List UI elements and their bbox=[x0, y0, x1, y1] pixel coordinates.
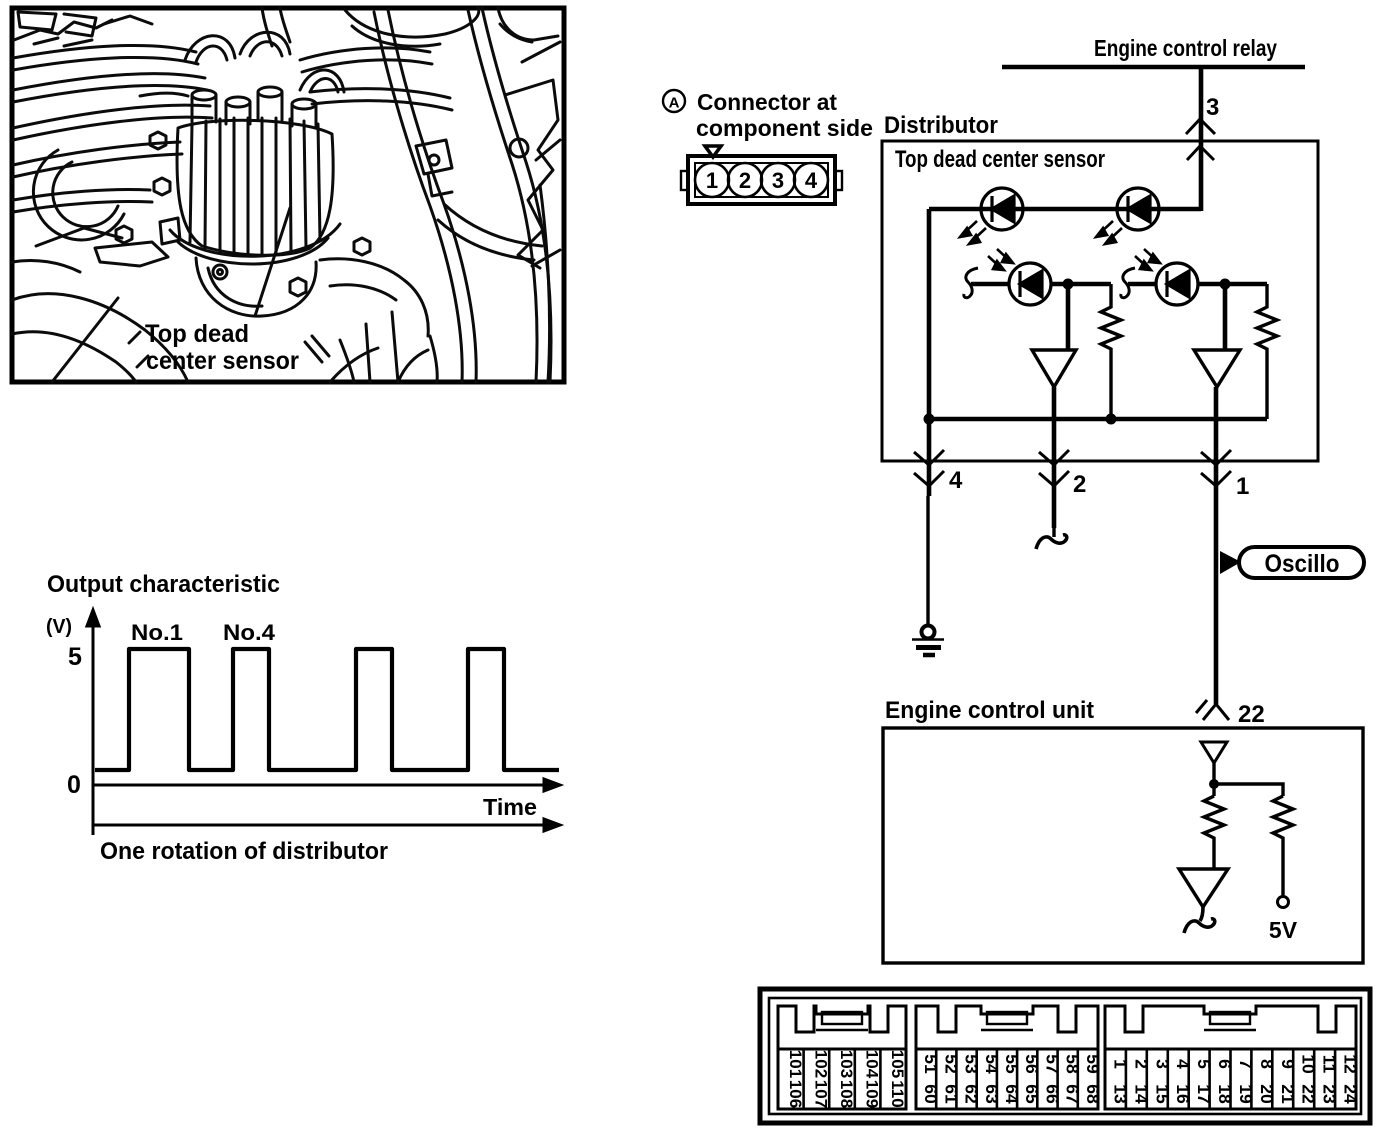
pin 1 label bbox=[1236, 473, 1249, 500]
svg-text:63: 63 bbox=[982, 1084, 1002, 1104]
engine illustration line art bbox=[12, 8, 560, 382]
svg-text:104: 104 bbox=[863, 1050, 882, 1079]
svg-text:52: 52 bbox=[941, 1054, 961, 1074]
svg-text:13: 13 bbox=[1111, 1084, 1131, 1104]
junction dot PD2 bbox=[1220, 279, 1231, 290]
resistor R4 series bbox=[1204, 796, 1224, 869]
svg-text:57: 57 bbox=[1042, 1054, 1062, 1073]
wire left drop to bus bbox=[927, 209, 932, 419]
resistor R2 bbox=[1257, 284, 1277, 419]
svg-text:One rotation of distributor: One rotation of distributor bbox=[100, 838, 388, 865]
photodiode PD2 input curl bbox=[1121, 268, 1135, 298]
svg-text:3: 3 bbox=[1152, 1059, 1172, 1069]
wire curl to PD2 bbox=[1128, 282, 1156, 287]
T4 output curl bbox=[1184, 907, 1215, 933]
label: Top dead center sensor bbox=[895, 146, 1105, 173]
connector A housing bbox=[681, 156, 842, 204]
wire pin 2 tail bbox=[1052, 486, 1055, 537]
svg-text:15: 15 bbox=[1152, 1084, 1172, 1104]
svg-text:5: 5 bbox=[68, 643, 82, 671]
buffer A2 bbox=[1194, 350, 1240, 387]
wire LED row horizontal bbox=[929, 207, 1201, 212]
svg-text:center sensor: center sensor bbox=[146, 347, 299, 375]
pin 22 label bbox=[1238, 701, 1265, 728]
connector symbol pin 1 bbox=[1201, 450, 1231, 486]
graph 0 tick label bbox=[67, 771, 81, 799]
photodiode PD2 bbox=[1156, 263, 1198, 305]
connector symbol pin 4 bbox=[914, 450, 944, 486]
svg-text:106: 106 bbox=[786, 1080, 805, 1108]
label: One rotation of distributor bbox=[100, 838, 388, 865]
svg-text:6: 6 bbox=[1215, 1059, 1235, 1069]
wire junction to buffer A2 bbox=[1223, 284, 1228, 350]
wire PD1 to R1 bbox=[1051, 282, 1111, 287]
svg-text:Output characteristic: Output characteristic bbox=[47, 571, 280, 598]
svg-text:Oscillo: Oscillo bbox=[1265, 550, 1340, 578]
svg-text:101: 101 bbox=[786, 1050, 805, 1078]
pin 3 label bbox=[1206, 94, 1219, 121]
wire curl to PD1 bbox=[971, 282, 1009, 287]
engine photo frame bbox=[12, 8, 564, 382]
LED D2 emission arrows bbox=[1096, 221, 1122, 244]
graph time axis bbox=[93, 779, 560, 791]
graph V axis unit bbox=[46, 616, 72, 638]
svg-text:10: 10 bbox=[1299, 1054, 1319, 1074]
svg-text:4: 4 bbox=[949, 467, 963, 494]
connector block housing x1105 bbox=[1105, 1006, 1356, 1049]
connector A pin circles 1-4 bbox=[695, 163, 828, 197]
connector block cells x778 bbox=[778, 1049, 906, 1109]
svg-text:2: 2 bbox=[1073, 471, 1086, 498]
waveform label No.4 bbox=[223, 620, 276, 645]
svg-text:Distributor: Distributor bbox=[884, 112, 998, 139]
svg-text:Engine control relay: Engine control relay bbox=[1094, 35, 1277, 61]
svg-text:62: 62 bbox=[962, 1084, 982, 1104]
svg-text:component side: component side bbox=[696, 115, 873, 141]
svg-text:54: 54 bbox=[982, 1054, 1002, 1074]
connector symbol pin 2 bbox=[1039, 450, 1069, 486]
svg-text:8: 8 bbox=[1257, 1059, 1277, 1069]
label: Time bbox=[483, 794, 537, 820]
LED D1 bbox=[981, 188, 1023, 230]
connector symbol pin 22 bbox=[1196, 700, 1229, 720]
svg-text:1: 1 bbox=[706, 168, 718, 193]
connector block housing x778 bbox=[778, 1006, 906, 1049]
pin 4 label bbox=[949, 467, 963, 494]
connector block cells x916 bbox=[916, 1049, 1098, 1109]
junction dot PD1 bbox=[1063, 279, 1074, 290]
PD1 light arrows bbox=[988, 249, 1013, 270]
wire buffer A1 output to pin 2 bbox=[1052, 387, 1057, 528]
svg-text:60: 60 bbox=[921, 1084, 941, 1104]
graph Y axis bbox=[87, 610, 99, 835]
pin 2 label bbox=[1073, 471, 1086, 498]
wire pin 4 drop bbox=[927, 419, 932, 496]
resistor R3 pull-up bbox=[1273, 796, 1293, 896]
svg-text:61: 61 bbox=[941, 1084, 961, 1104]
photodiode PD1 bbox=[1009, 263, 1051, 305]
svg-text:14: 14 bbox=[1131, 1084, 1151, 1104]
wire buffer A2 output to pin 1 bbox=[1214, 387, 1219, 704]
svg-text:2: 2 bbox=[739, 168, 751, 193]
svg-text:No.1: No.1 bbox=[131, 620, 183, 645]
svg-text:A: A bbox=[669, 95, 680, 112]
svg-text:108: 108 bbox=[837, 1080, 856, 1108]
oscillo probe triangle bbox=[1220, 551, 1241, 574]
svg-text:51: 51 bbox=[921, 1054, 941, 1074]
junction dot ECU bbox=[1209, 779, 1219, 789]
LED D1 emission arrows bbox=[960, 221, 986, 244]
svg-text:109: 109 bbox=[863, 1080, 882, 1108]
svg-text:11: 11 bbox=[1320, 1055, 1340, 1074]
svg-text:59: 59 bbox=[1083, 1054, 1103, 1074]
ground bus wire bbox=[929, 417, 1267, 422]
svg-text:Top dead center sensor: Top dead center sensor bbox=[895, 146, 1105, 173]
svg-text:66: 66 bbox=[1042, 1084, 1062, 1104]
photodiode PD1 input curl bbox=[964, 268, 978, 298]
svg-text:24: 24 bbox=[1341, 1084, 1361, 1104]
ground symbol bbox=[912, 626, 944, 656]
svg-text:3: 3 bbox=[1206, 94, 1219, 121]
svg-text:9: 9 bbox=[1278, 1059, 1298, 1069]
svg-text:7: 7 bbox=[1236, 1059, 1256, 1069]
label: Top dead center sensor (photo) bbox=[145, 320, 299, 375]
svg-text:67: 67 bbox=[1063, 1084, 1083, 1103]
wire junction to pullup bbox=[1214, 784, 1283, 796]
square waveform bbox=[95, 649, 559, 770]
svg-text:64: 64 bbox=[1002, 1084, 1022, 1104]
connector block cells x1105 bbox=[1105, 1049, 1356, 1109]
svg-text:18: 18 bbox=[1215, 1084, 1235, 1104]
ECU connector outer frame bbox=[760, 989, 1370, 1123]
resistor R1 bbox=[1101, 284, 1121, 419]
svg-text:5V: 5V bbox=[1269, 917, 1298, 943]
waveform label No.1 bbox=[131, 620, 183, 645]
svg-text:1: 1 bbox=[1111, 1059, 1131, 1069]
distributor box bbox=[882, 141, 1318, 461]
engine control unit box bbox=[883, 728, 1363, 963]
LED D2 bbox=[1117, 188, 1159, 230]
engine control relay bus line bbox=[1002, 65, 1305, 70]
svg-text:Connector at: Connector at bbox=[697, 89, 837, 115]
svg-text:2: 2 bbox=[1131, 1059, 1151, 1069]
svg-text:68: 68 bbox=[1083, 1084, 1103, 1104]
wire PD2 to R2 bbox=[1198, 282, 1267, 287]
svg-text:4: 4 bbox=[805, 168, 818, 193]
svg-text:4: 4 bbox=[1173, 1059, 1193, 1069]
connector block housing x916 bbox=[916, 1006, 1098, 1049]
wire junction to buffer A1 bbox=[1066, 284, 1071, 350]
svg-text:12: 12 bbox=[1341, 1054, 1361, 1074]
svg-text:110: 110 bbox=[888, 1080, 907, 1107]
svg-text:Engine control unit: Engine control unit bbox=[885, 697, 1094, 724]
oscillo capsule bbox=[1239, 547, 1364, 578]
wire pin 4 to ground bbox=[926, 496, 929, 626]
svg-text:17: 17 bbox=[1194, 1084, 1214, 1103]
svg-text:58: 58 bbox=[1063, 1054, 1083, 1074]
svg-text:Top dead: Top dead bbox=[145, 320, 249, 348]
connector block pin numbers x916 bbox=[921, 1054, 1103, 1104]
wire pin3 vertical from relay bbox=[1199, 67, 1204, 211]
buffer A1 bbox=[1032, 350, 1076, 387]
svg-text:23: 23 bbox=[1320, 1084, 1340, 1104]
graph 5 tick label bbox=[68, 643, 82, 671]
svg-text:3: 3 bbox=[772, 168, 784, 193]
label: Output characteristic bbox=[47, 571, 280, 598]
label: Connector at component side bbox=[696, 89, 873, 141]
PD2 light arrows bbox=[1135, 249, 1160, 270]
svg-text:20: 20 bbox=[1257, 1084, 1277, 1104]
svg-text:107: 107 bbox=[811, 1080, 830, 1108]
svg-text:(V): (V) bbox=[46, 616, 72, 638]
svg-text:102: 102 bbox=[811, 1050, 830, 1078]
svg-text:22: 22 bbox=[1238, 701, 1265, 728]
connector block pin numbers x1105 bbox=[1111, 1054, 1361, 1104]
5V terminal bbox=[1269, 897, 1298, 944]
label: Engine control relay bbox=[1094, 35, 1277, 61]
svg-text:22: 22 bbox=[1299, 1084, 1319, 1104]
svg-text:21: 21 bbox=[1278, 1084, 1298, 1104]
svg-text:No.4: No.4 bbox=[223, 620, 276, 645]
comparator triangle T4 bbox=[1179, 869, 1228, 907]
connector A index triangle bbox=[705, 146, 721, 157]
junction dot bus left bbox=[924, 414, 935, 425]
svg-text:5: 5 bbox=[1194, 1059, 1214, 1069]
label: Engine control unit bbox=[885, 697, 1094, 724]
one rotation axis arrow bbox=[93, 819, 560, 831]
svg-text:Time: Time bbox=[483, 794, 537, 820]
svg-text:56: 56 bbox=[1022, 1054, 1042, 1074]
wire T3 to junction bbox=[1212, 763, 1215, 796]
pin 2 continuation curl bbox=[1036, 535, 1067, 549]
connector block pin numbers x778 bbox=[786, 1050, 907, 1108]
svg-text:0: 0 bbox=[67, 771, 81, 799]
svg-text:1: 1 bbox=[1236, 473, 1249, 500]
connector symbol pin 3 bbox=[1186, 119, 1215, 160]
label: Distributor bbox=[884, 112, 998, 139]
svg-text:53: 53 bbox=[962, 1054, 982, 1074]
junction dot bus R1 bbox=[1106, 414, 1117, 425]
svg-text:55: 55 bbox=[1002, 1054, 1022, 1074]
input triangle T3 bbox=[1201, 742, 1227, 763]
svg-text:103: 103 bbox=[837, 1050, 856, 1078]
connector A label circle bbox=[663, 90, 685, 112]
svg-text:16: 16 bbox=[1173, 1084, 1193, 1104]
svg-text:19: 19 bbox=[1236, 1084, 1256, 1104]
svg-text:105: 105 bbox=[888, 1050, 907, 1078]
svg-text:65: 65 bbox=[1022, 1084, 1042, 1104]
